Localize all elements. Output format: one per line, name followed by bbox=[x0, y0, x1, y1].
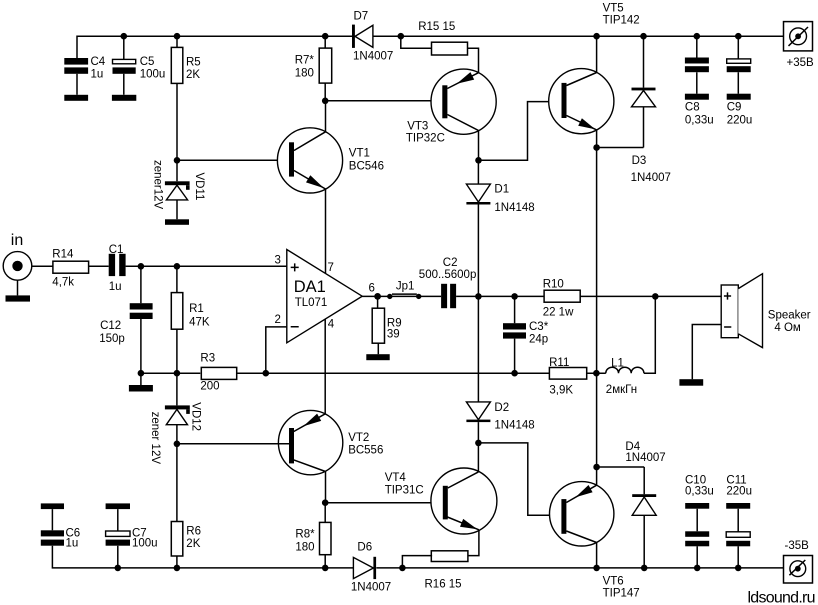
svg-text:100u: 100u bbox=[140, 69, 166, 81]
wire bbox=[587, 372, 606, 374]
jumper Jp1 bbox=[387, 280, 421, 299]
capacitor C7 bbox=[106, 509, 158, 568]
resistor R3 bbox=[200, 353, 236, 393]
wire to opamp pin3 bbox=[126, 265, 287, 267]
resistor R1 bbox=[171, 266, 210, 373]
junction bbox=[174, 565, 181, 572]
junction bbox=[398, 33, 405, 40]
svg-text:220u: 220u bbox=[727, 115, 753, 127]
svg-text:BC546: BC546 bbox=[349, 161, 384, 173]
svg-text:C1: C1 bbox=[109, 244, 124, 256]
svg-text:1N4148: 1N4148 bbox=[494, 202, 534, 214]
wire VT6 collector bbox=[596, 543, 598, 568]
wire VT5 base path bbox=[479, 102, 562, 161]
resistor R6 bbox=[171, 444, 201, 568]
zener diode VD11 bbox=[152, 160, 206, 219]
wire VT1 base bbox=[177, 159, 289, 161]
capacitor C6 bbox=[41, 509, 80, 550]
svg-text:C3*: C3* bbox=[529, 321, 549, 333]
junction bbox=[174, 370, 181, 377]
junction bbox=[174, 441, 181, 448]
svg-text:0,33u: 0,33u bbox=[685, 115, 714, 127]
svg-text:R11: R11 bbox=[549, 357, 569, 369]
junction bbox=[174, 33, 181, 40]
svg-text:VT2: VT2 bbox=[348, 432, 369, 444]
diode D4 bbox=[625, 441, 665, 515]
capacitor C3 bbox=[503, 296, 549, 373]
svg-text:C4: C4 bbox=[91, 56, 106, 68]
capacitor C11 bbox=[726, 475, 752, 568]
wire R15 branch bbox=[401, 36, 479, 73]
svg-text:VT3: VT3 bbox=[407, 120, 428, 132]
svg-text:1N4007: 1N4007 bbox=[625, 452, 665, 464]
svg-text:1N4007: 1N4007 bbox=[631, 172, 671, 184]
svg-text:150p: 150p bbox=[99, 333, 125, 345]
wire bottom rail right bbox=[376, 567, 783, 569]
resistor R15 bbox=[418, 21, 467, 55]
wire VT4 collector bbox=[477, 443, 479, 472]
svg-text:C2: C2 bbox=[443, 257, 458, 269]
junction bbox=[115, 565, 122, 572]
capacitor C10 bbox=[685, 475, 714, 568]
svg-text:R10: R10 bbox=[543, 279, 564, 291]
resistor R8 bbox=[295, 503, 331, 568]
svg-text:D6: D6 bbox=[357, 542, 372, 554]
svg-text:zener12V: zener12V bbox=[152, 160, 164, 210]
transistor VT5 bbox=[549, 3, 640, 134]
wire D4 branch bbox=[597, 467, 645, 568]
svg-text:+35В: +35В bbox=[787, 57, 815, 69]
junction bbox=[593, 370, 600, 377]
resistor R16 bbox=[425, 551, 468, 591]
wire bbox=[419, 295, 441, 297]
svg-text:in: in bbox=[11, 232, 23, 249]
ground speaker bbox=[679, 379, 703, 386]
junction bbox=[511, 370, 518, 377]
svg-text:zener 12V: zener 12V bbox=[149, 412, 161, 465]
junction bbox=[174, 157, 181, 164]
svg-text:D1: D1 bbox=[494, 184, 509, 196]
junction bbox=[593, 144, 600, 151]
junction bbox=[475, 157, 482, 164]
svg-text:R16 15: R16 15 bbox=[425, 578, 462, 590]
wire VT6 base path bbox=[478, 443, 561, 515]
svg-text:L1: L1 bbox=[611, 358, 624, 370]
zener diode VD12 bbox=[149, 373, 202, 464]
junction bbox=[640, 33, 647, 40]
ground under input bbox=[6, 295, 31, 301]
wire VT3 base bbox=[325, 100, 442, 102]
svg-text:TIP147: TIP147 bbox=[603, 587, 640, 599]
svg-text:R3: R3 bbox=[200, 353, 215, 365]
svg-text:TIP142: TIP142 bbox=[603, 14, 640, 26]
transistor VT6 bbox=[550, 482, 640, 600]
junction bbox=[138, 263, 145, 270]
transistor VT1 bbox=[277, 128, 384, 193]
svg-text:VD11: VD11 bbox=[193, 173, 205, 201]
ground under R9 bbox=[366, 354, 389, 360]
junction bbox=[263, 370, 270, 377]
resistor R7 bbox=[295, 36, 332, 101]
ground under C12 bbox=[129, 385, 153, 392]
ground under C8 bbox=[685, 94, 709, 100]
svg-text:C9: C9 bbox=[727, 102, 742, 114]
svg-text:VD12: VD12 bbox=[190, 402, 202, 431]
terminal -35V bbox=[784, 540, 813, 583]
svg-text:C8: C8 bbox=[685, 102, 700, 114]
svg-text:BC556: BC556 bbox=[348, 445, 383, 457]
svg-text:39: 39 bbox=[387, 329, 400, 341]
capacitor C12 bbox=[99, 266, 152, 373]
resistor R14 bbox=[52, 248, 88, 288]
capacitor C8 bbox=[685, 36, 714, 126]
wire feedback line right bbox=[237, 372, 550, 374]
svg-text:180: 180 bbox=[295, 542, 314, 554]
transistor VT3 bbox=[406, 69, 496, 144]
svg-text:DA1: DA1 bbox=[294, 278, 326, 296]
wire VT5 emitter bbox=[596, 130, 598, 148]
ground above C6 bbox=[41, 503, 64, 509]
wire VT2 collector bbox=[325, 472, 327, 503]
ground under VD11 bbox=[165, 219, 189, 225]
transistor VT4 bbox=[385, 468, 497, 534]
wire VT4 emitter to R16 bbox=[468, 530, 479, 556]
svg-text:R15 15: R15 15 bbox=[418, 21, 455, 33]
resistor R10 bbox=[543, 279, 580, 319]
resistor R9 bbox=[372, 296, 401, 354]
junction bbox=[121, 33, 128, 40]
junction bbox=[511, 293, 518, 300]
wire top rail left segment bbox=[77, 36, 352, 58]
wire L1 up to output bbox=[644, 296, 655, 373]
wire C12 ground stem bbox=[140, 373, 142, 385]
svg-text:24p: 24p bbox=[529, 333, 548, 345]
svg-text:R7*: R7* bbox=[295, 55, 315, 67]
ground under C9 bbox=[727, 94, 751, 100]
junction bbox=[694, 565, 701, 572]
svg-text:1N4148: 1N4148 bbox=[494, 420, 534, 432]
junction bbox=[652, 293, 659, 300]
svg-text:VT1: VT1 bbox=[349, 147, 370, 159]
svg-text:-35В: -35В bbox=[785, 540, 810, 552]
junction bbox=[174, 263, 181, 270]
svg-text:R5: R5 bbox=[186, 56, 201, 68]
svg-text:R1: R1 bbox=[189, 303, 204, 315]
svg-text:ldsound.ru: ldsound.ru bbox=[748, 590, 816, 605]
svg-text:3: 3 bbox=[275, 254, 281, 266]
wire main output vertical bbox=[596, 148, 598, 486]
wire speaker minus to ground bbox=[692, 325, 721, 380]
wire bbox=[89, 265, 109, 267]
wire feedback line left bbox=[141, 372, 200, 374]
svg-text:D3: D3 bbox=[632, 155, 647, 167]
ground under C5 bbox=[112, 95, 136, 101]
diode D7 bbox=[352, 10, 393, 62]
terminal +35V bbox=[784, 22, 815, 69]
inductor L1 bbox=[606, 358, 644, 396]
svg-text:500..5600p: 500..5600p bbox=[419, 269, 477, 281]
wire VT5 emitter to D3 bbox=[597, 147, 644, 149]
svg-text:47K: 47K bbox=[189, 316, 210, 328]
wire opamp pin2 branch bbox=[266, 327, 287, 373]
wire VT1 emitter to opamp pin7 bbox=[325, 189, 327, 273]
junction bbox=[374, 293, 381, 300]
svg-text:200: 200 bbox=[200, 381, 219, 393]
svg-text:1N4007: 1N4007 bbox=[351, 582, 391, 594]
wire R16 to rail bbox=[402, 556, 432, 568]
svg-text:1N4007: 1N4007 bbox=[353, 51, 393, 63]
diode D6 bbox=[351, 542, 391, 594]
svg-text:VT6: VT6 bbox=[603, 576, 624, 588]
ground above C11 bbox=[726, 503, 750, 509]
ground under C4 bbox=[64, 95, 88, 101]
svg-text:TIP32C: TIP32C bbox=[406, 133, 445, 145]
svg-text:2мкГн: 2мкГн bbox=[606, 384, 637, 396]
svg-text:R9: R9 bbox=[387, 317, 402, 329]
svg-text:D7: D7 bbox=[354, 10, 369, 22]
svg-text:3,9K: 3,9K bbox=[549, 385, 573, 397]
svg-text:6: 6 bbox=[369, 283, 375, 295]
svg-text:VT5: VT5 bbox=[603, 3, 624, 15]
svg-text:4,7k: 4,7k bbox=[52, 277, 74, 289]
junction bbox=[475, 440, 482, 447]
junction bbox=[138, 370, 145, 377]
wire VT1 collector bbox=[325, 101, 327, 132]
wire opamp output bbox=[362, 295, 390, 297]
diode D2 bbox=[466, 402, 534, 443]
diode D3 bbox=[631, 36, 671, 184]
ground above C7 bbox=[106, 503, 130, 509]
wire top rail right segment bbox=[373, 35, 784, 37]
junction bbox=[322, 98, 329, 105]
wire R10 to speaker bbox=[580, 295, 721, 297]
diode D1 bbox=[466, 160, 534, 402]
svg-text:Speaker: Speaker bbox=[768, 310, 811, 322]
svg-text:0,33u: 0,33u bbox=[685, 486, 714, 498]
wire VT2 base bbox=[177, 443, 289, 445]
junction bbox=[593, 33, 600, 40]
wire bottom rail left bbox=[52, 546, 353, 568]
capacitor C1 bbox=[109, 244, 126, 293]
capacitor C9 bbox=[727, 36, 753, 126]
svg-text:180: 180 bbox=[295, 68, 314, 80]
svg-text:4 Ом: 4 Ом bbox=[774, 322, 801, 334]
svg-text:1u: 1u bbox=[109, 281, 122, 293]
transistor VT2 bbox=[278, 410, 383, 474]
svg-text:4: 4 bbox=[328, 318, 335, 330]
svg-text:C5: C5 bbox=[140, 56, 155, 68]
speaker bbox=[721, 274, 811, 348]
svg-text:C12: C12 bbox=[100, 320, 121, 332]
junction bbox=[399, 565, 406, 572]
junction bbox=[735, 565, 742, 572]
resistor R11 bbox=[549, 357, 587, 397]
wire opamp pin4 bbox=[324, 319, 326, 414]
junction bbox=[322, 565, 329, 572]
junction bbox=[735, 33, 742, 40]
junction bbox=[593, 464, 600, 471]
svg-text:7: 7 bbox=[328, 262, 334, 274]
wire bbox=[456, 295, 544, 297]
resistor R5 bbox=[171, 36, 200, 160]
junction bbox=[322, 33, 329, 40]
junction bbox=[322, 499, 329, 506]
ground above C10 bbox=[685, 503, 709, 509]
wire input bbox=[32, 265, 53, 267]
junction bbox=[475, 293, 482, 300]
junction bbox=[694, 33, 701, 40]
junction bbox=[593, 565, 600, 572]
op-amp DA1 bbox=[275, 250, 375, 343]
capacitor C4 bbox=[64, 56, 106, 95]
svg-text:TL071: TL071 bbox=[295, 297, 328, 309]
svg-text:TIP31C: TIP31C bbox=[385, 485, 424, 497]
svg-text:R6: R6 bbox=[186, 526, 201, 538]
svg-text:VT4: VT4 bbox=[385, 472, 407, 484]
capacitor C5 bbox=[113, 36, 166, 95]
svg-text:22 1w: 22 1w bbox=[543, 307, 574, 319]
junction bbox=[641, 565, 648, 572]
svg-text:2K: 2K bbox=[186, 69, 200, 81]
capacitor C2 bbox=[419, 257, 477, 308]
svg-text:D2: D2 bbox=[494, 402, 509, 414]
svg-text:2: 2 bbox=[275, 314, 281, 326]
svg-text:2K: 2K bbox=[186, 538, 200, 550]
svg-text:R14: R14 bbox=[52, 248, 74, 260]
wire VT5 collector bbox=[596, 36, 598, 72]
svg-text:220u: 220u bbox=[726, 486, 752, 498]
svg-text:100u: 100u bbox=[132, 538, 158, 550]
wire VT3 collector bbox=[478, 131, 480, 161]
svg-text:1u: 1u bbox=[91, 69, 104, 81]
svg-text:1u: 1u bbox=[66, 538, 79, 550]
svg-text:Jp1: Jp1 bbox=[396, 280, 415, 292]
input connector bbox=[3, 232, 32, 295]
wire VT4 base bbox=[325, 502, 443, 504]
svg-text:R8*: R8* bbox=[295, 529, 315, 541]
